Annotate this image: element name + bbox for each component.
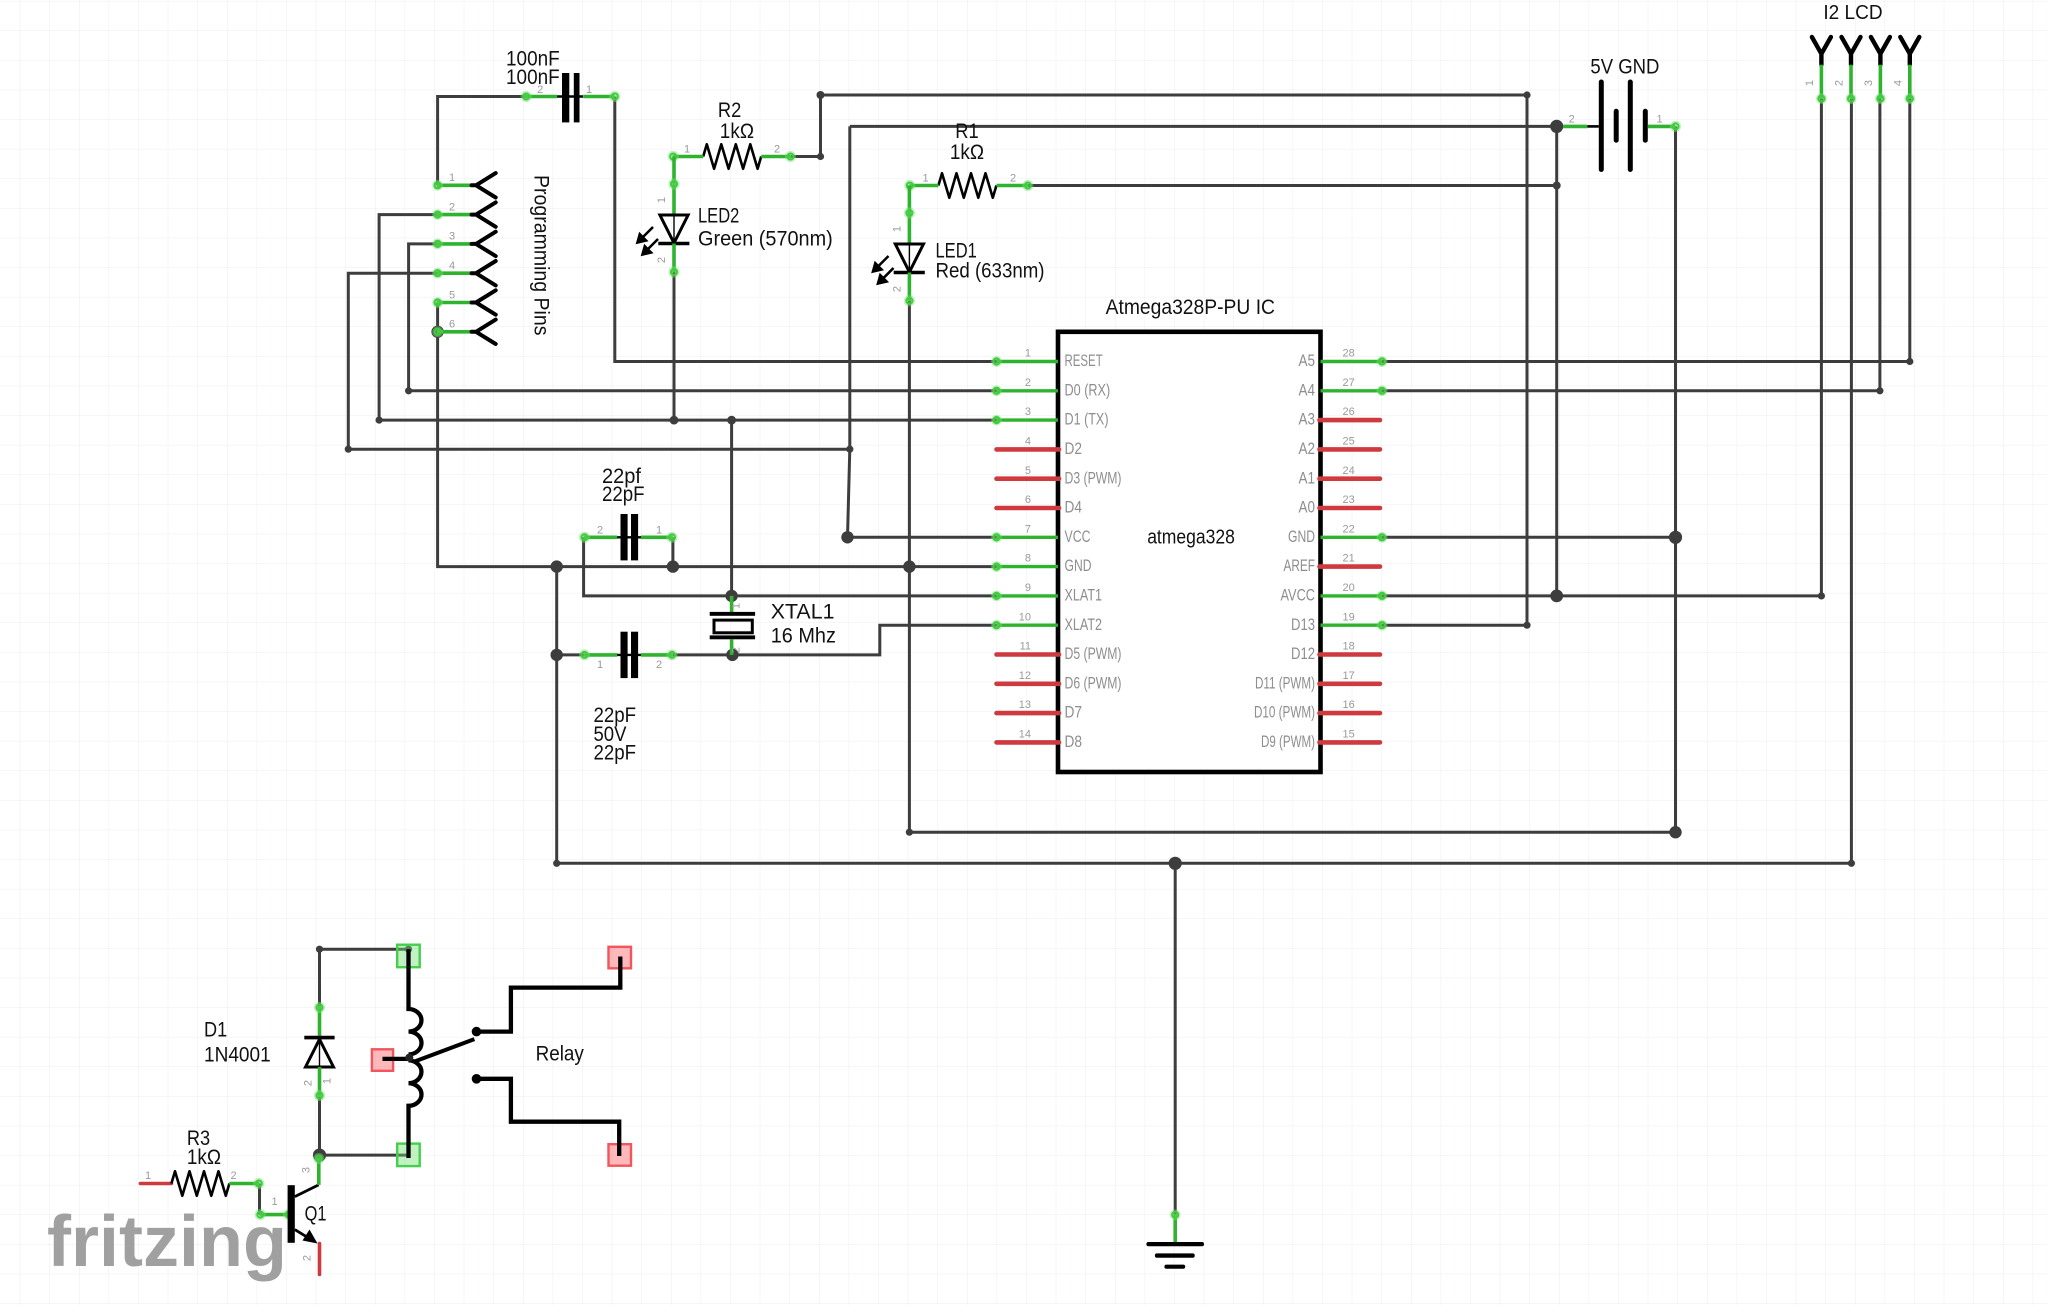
wire 22pF C2 pin1 down to GND rail [671,537,674,566]
IC U1 pin 11 D5 (PWM) lead [997,641,1122,664]
wire battery pin1 vertical [1674,126,1677,832]
capacitor C3 pin 2 lead [641,653,673,657]
svg-text:20: 20 [1343,582,1355,594]
junction lower rail at battery pin1 vertical [1669,826,1681,838]
junction XLAT1 row at XTAL1 pin1 [725,590,737,602]
wire 5V net: battery pin2 horizontal [850,125,1557,128]
LED LED2 pin 1 lead [672,157,676,216]
svg-text:5: 5 [1025,465,1031,477]
wire RESET net: 100nF pin1 down to IC pin1 RESET [615,97,997,362]
svg-text:D8: D8 [1065,732,1083,751]
svg-text:Green (570nm): Green (570nm) [698,226,833,250]
programming pin 3 [432,231,496,256]
svg-text:2: 2 [1010,173,1016,185]
svg-text:6: 6 [1025,494,1031,506]
svg-text:11: 11 [1020,641,1031,653]
relay common tap [383,1057,409,1061]
svg-text:XTAL1: XTAL1 [771,600,835,624]
svg-text:1: 1 [271,1196,277,1208]
LED LED1 body [894,244,925,273]
crystal XTAL1 pin 1 lead [730,596,734,613]
wire 5V net: battery pin2 vertical to VCC pin7 [848,126,997,537]
svg-text:1: 1 [597,659,603,671]
svg-text:D13: D13 [1291,615,1315,634]
svg-text:1: 1 [684,144,690,156]
IC U1 pin 18 D12 lead [1291,641,1380,664]
svg-text:1: 1 [145,1170,151,1182]
junction D13 row corner [1523,622,1530,629]
resistor R3 pin 1 stub [140,1182,171,1186]
IC U1 pin 3 D1 (TX) lead [991,406,1108,429]
svg-text:1kΩ: 1kΩ [187,1145,221,1169]
junction A4 row at I2C pin3 riser [1876,387,1883,394]
wire GND pin22 to battery pin1 vertical [1382,536,1676,539]
svg-text:A4: A4 [1299,380,1316,399]
relay upper contact to NO pad [476,957,621,1032]
I2C LCD pin 2 [1834,37,1861,104]
svg-text:2: 2 [303,1080,315,1086]
svg-text:6: 6 [449,319,455,331]
svg-text:1: 1 [731,603,743,609]
svg-text:22pF: 22pF [594,741,637,765]
relay lower contact to NC pad [476,1079,620,1156]
relay armature [414,1039,474,1062]
LED LED1 pin 1 lead [908,186,912,245]
IC U1 pin 21 AREF lead [1284,553,1381,576]
I2C LCD pin 3 [1863,37,1890,104]
svg-text:LED2: LED2 [698,204,739,228]
svg-text:1: 1 [892,226,904,232]
svg-text:2: 2 [656,659,662,671]
relay pad red NO contact [609,947,632,969]
IC U1 pin 22 GND lead [1288,523,1387,546]
svg-text:1: 1 [1804,80,1816,86]
wire collector junction to relay coil pin2 [320,1154,409,1157]
capacitor C2 pin 1 lead [641,535,673,539]
junction AVCC row at I2C pin1 riser [1818,592,1825,599]
junction XTAL1 pin2 row [726,649,738,661]
svg-text:fritzing: fritzing [47,1202,287,1282]
resistor R2 pin 1 lead [673,155,704,159]
junction GND rail at C2/C3 vertical [551,560,563,572]
IC U1 pin 13 D7 lead [997,699,1083,722]
svg-text:19: 19 [1343,611,1355,623]
capacitor C2 22pF plates [617,514,641,560]
svg-text:2: 2 [597,525,603,537]
IC U1 pin 1 RESET lead [991,348,1103,371]
svg-text:1: 1 [656,525,662,537]
IC U1 pin 19 D13 lead [1291,611,1387,634]
LED LED1 emission arrows [873,256,894,284]
wire R1 pin2 to battery pin2 vertical [1029,184,1557,187]
capacitor C2 pin 2 lead [584,535,618,539]
svg-text:2: 2 [731,647,743,653]
I2C LCD pin 1 [1804,37,1831,104]
svg-text:4: 4 [1025,436,1031,448]
IC U1 pin 24 A1 lead [1299,465,1381,488]
wire R2 pin2 up to top rail and D13 [791,95,1527,625]
svg-text:XLAT1: XLAT1 [1065,586,1103,605]
junction GND rail at LED1 branch [903,560,915,572]
capacitor C1 pin 2 lead [525,95,558,99]
junction lower rail at LED1 corner [906,829,913,836]
svg-text:Relay: Relay [536,1042,584,1066]
svg-text:AVCC: AVCC [1281,586,1316,605]
svg-text:Atmega328P-PU IC: Atmega328P-PU IC [1106,295,1275,319]
svg-text:21: 21 [1343,553,1355,565]
junction D1 row at LED2 cathode [670,416,679,425]
resistor R3 body [171,1171,229,1196]
svg-text:10: 10 [1019,611,1031,623]
resistor R1 pin 1 lead [909,184,938,188]
svg-text:2: 2 [656,257,668,263]
svg-text:1: 1 [656,197,668,203]
LED LED2 body [658,215,689,244]
wire 5V net: programming pin4 down and right [348,273,850,449]
svg-text:23: 23 [1343,494,1355,506]
svg-text:D1: D1 [204,1018,227,1042]
wire D1 row junction down to XTAL1 pin1 [730,420,733,596]
capacitor C1 100nF plates [557,73,583,122]
junction top rail right corner [1523,91,1530,98]
wire D1 net: programming pin2 to IC pin3 D1 [379,215,996,421]
svg-text:3: 3 [1863,80,1875,86]
junction battery pin2 wire [1550,120,1563,133]
IC U1 pin 25 A2 lead [1299,436,1381,459]
svg-text:22: 22 [1343,523,1355,535]
junction 5V row at battery vertical [846,446,853,453]
svg-text:D3 (PWM): D3 (PWM) [1065,468,1122,487]
wire relay coil pin to D1 anode [320,949,409,1006]
capacitor C3 22pF plates [617,632,641,678]
svg-text:A1: A1 [1299,468,1316,487]
diode D1 body [304,1038,334,1067]
svg-text:14: 14 [1019,729,1031,741]
svg-text:2: 2 [1834,80,1846,86]
IC U1 pin 20 AVCC lead [1281,582,1388,605]
programming pin 1 [432,172,496,197]
IC U1 pin 16 D10 (PWM) lead [1254,699,1380,722]
svg-text:D7: D7 [1065,703,1083,722]
resistor R2 pin 2 lead [761,155,791,159]
svg-text:100nF: 100nF [506,65,560,89]
wire D1 cathode down to collector junction [318,1097,321,1155]
svg-text:2: 2 [302,1255,314,1261]
svg-text:A5: A5 [1299,351,1316,370]
wire GND rail junction down to bottom rail and I2C LCD pin2 [557,99,1852,864]
svg-text:D10 (PWM): D10 (PWM) [1254,703,1315,722]
resistor R2 body [703,144,761,169]
junction battery vertical at R1 row [1553,182,1561,190]
svg-text:I2 LCD: I2 LCD [1823,2,1882,24]
svg-text:3: 3 [1025,406,1031,418]
svg-text:RESET: RESET [1065,351,1103,370]
IC U1 pin 8 GND lead [991,553,1091,576]
svg-text:D6 (PWM): D6 (PWM) [1065,673,1122,692]
svg-text:1: 1 [1657,113,1663,125]
svg-text:8: 8 [1025,553,1031,565]
IC U1 pin 12 D6 (PWM) lead [997,670,1122,693]
IC U1 pin 17 D11 (PWM) lead [1255,670,1380,693]
battery BT1 pin 1 lead [1648,125,1676,129]
junction A5 row at I2C pin4 riser [1906,358,1913,365]
relay pad green coil pin 1 [397,945,420,968]
resistor R3 pin 2 lead [229,1182,259,1186]
junction D1 anode corner [316,946,323,953]
svg-text:D12: D12 [1291,644,1315,663]
svg-text:2: 2 [1025,377,1031,389]
svg-text:D2: D2 [1065,439,1083,458]
wire 22pF C3 pin1 stub to GND vertical [557,653,584,656]
svg-text:9: 9 [1025,582,1031,594]
svg-text:1kΩ: 1kΩ [950,140,984,164]
capacitor C1 pin 1 lead [583,95,615,99]
svg-text:1: 1 [922,173,928,185]
programming pin 5 [432,289,496,314]
svg-text:2: 2 [774,144,780,156]
IC U1 pin 5 D3 (PWM) lead [997,465,1122,488]
svg-text:7: 7 [1025,523,1031,535]
junction D0 row at prog pin3 riser [405,387,412,394]
IC U1 pin 15 D9 (PWM) lead [1261,729,1380,752]
IC U1 pin 2 D0 (RX) lead [991,377,1110,400]
svg-text:24: 24 [1343,465,1355,477]
svg-text:1: 1 [449,172,455,184]
svg-text:1: 1 [322,1078,334,1084]
transistor Q1 emitter stub [318,1244,322,1275]
junction GND pin22 at battery pin1 vertical [1669,531,1682,544]
transistor Q1 collector lead [317,1157,321,1185]
IC U1 pin 27 A4 lead [1299,377,1388,400]
ground symbol [1146,1209,1204,1268]
svg-text:28: 28 [1343,348,1355,360]
svg-text:Programming Pins: Programming Pins [530,175,553,336]
wire 22pF C3 pin2 to XTAL1 pin2 to IC pin10 XLAT2 [673,625,997,655]
junction R2 pin2 corner [817,153,824,160]
svg-text:5V GND: 5V GND [1590,55,1659,79]
svg-text:1: 1 [1025,348,1031,360]
IC U1 pin 9 XLAT1 lead [991,582,1102,605]
junction bottom rail left corner [553,860,560,867]
svg-text:A2: A2 [1299,439,1316,458]
svg-text:D11 (PWM): D11 (PWM) [1255,673,1315,692]
svg-text:2: 2 [449,201,455,213]
svg-text:GND: GND [1288,527,1315,546]
resistor R1 pin 2 lead [997,184,1029,188]
svg-text:18: 18 [1343,641,1355,653]
svg-text:D0 (RX): D0 (RX) [1065,380,1111,399]
relay coil [409,949,422,1158]
svg-text:atmega328: atmega328 [1147,527,1235,549]
wire battery pin2 vertical down to AVCC row [1555,126,1558,596]
svg-text:13: 13 [1019,699,1031,711]
LED LED1 pin 2 lead [908,273,912,301]
wire A5 pin28 to I2C LCD pin4 [1380,99,1910,362]
svg-text:Red (633nm): Red (633nm) [936,259,1045,283]
svg-text:Q1: Q1 [305,1201,327,1225]
IC U1 pin 14 D8 lead [997,729,1083,752]
svg-text:D4: D4 [1065,498,1083,517]
junction relay coil top pad entry [405,946,412,953]
relay pad green coil pin 2 [397,1144,420,1167]
junction D1 cathode, collector, relay coil [313,1149,326,1162]
relay pad red NC contact [609,1144,632,1166]
svg-text:3: 3 [300,1167,312,1173]
svg-text:D9 (PWM): D9 (PWM) [1261,732,1315,751]
junction VCC row at battery vertical [841,531,853,543]
transistor Q1 base lead [260,1213,291,1217]
junction programming pin6 [431,326,443,338]
svg-text:25: 25 [1343,436,1355,448]
wire R3 pin2 to Q1 base [258,1184,261,1215]
svg-text:26: 26 [1343,406,1355,418]
junction 5V row at prog pin4 riser [345,446,352,453]
programming pin 4 [432,260,496,285]
junction C3 pin1 at GND vertical [551,649,563,661]
svg-text:2: 2 [537,84,543,96]
IC U1 pin 10 XLAT2 lead [991,611,1102,634]
junction GND rail at C2 pin1 [667,560,679,572]
svg-text:15: 15 [1343,729,1355,741]
junction bottom rail at ground symbol [1169,857,1182,870]
I2C LCD pin 4 [1892,37,1919,104]
resistor R1 body [938,173,996,198]
wire D0 net: programming pin3 to IC pin2 D0 [409,244,997,391]
svg-text:2: 2 [1569,113,1575,125]
IC U1 pin 4 D2 lead [997,436,1083,459]
wire AVCC pin20 to I2C LCD pin1 [1382,99,1821,596]
crystal XTAL1 pin 2 lead [730,639,734,655]
svg-text:4: 4 [449,260,455,272]
programming pin 6 [432,319,496,344]
capacitor C3 pin 1 lead [584,653,618,657]
wire ground symbol stem [1174,863,1177,1214]
junction AVCC row at battery vertical [1550,590,1563,603]
svg-text:4: 4 [1892,80,1904,86]
svg-text:A0: A0 [1299,498,1316,517]
svg-text:VCC: VCC [1065,527,1091,546]
junction top rail at R2 riser [817,91,825,99]
junction bottom rail at I2C pin2 riser [1848,860,1855,867]
svg-text:17: 17 [1343,670,1355,682]
IC U1 pin 6 D4 lead [997,494,1083,516]
svg-text:2: 2 [892,286,904,292]
svg-text:3: 3 [449,231,455,243]
IC U1 pin 7 VCC lead [991,523,1090,546]
wire 22pF C2 pin2 down to XLAT1 row to IC pin9 [584,537,997,596]
svg-text:AREF: AREF [1284,556,1316,575]
svg-text:12: 12 [1019,670,1031,682]
junction D1 row at prog pin2 riser [376,417,383,424]
battery BT1 pin 2 lead [1563,125,1587,129]
svg-text:27: 27 [1343,377,1355,389]
wire GND rail: programming pins 5-6 to IC pin8 GND [438,303,997,567]
svg-text:16 Mhz: 16 Mhz [771,624,836,648]
svg-text:1: 1 [586,84,592,96]
diode D1 pin 2 lead [318,1006,322,1036]
relay pad red common [372,1049,393,1071]
diode D1 pin 1 lead [318,1067,322,1097]
junction D1 row at XTAL branch [727,416,736,425]
wire LED2 cathode down to D1 row [673,272,676,420]
LED LED2 pin 2 lead [672,244,676,273]
svg-text:5: 5 [449,289,455,301]
wire LED1 cathode down to lower rail to GND vertical [909,301,1675,832]
svg-text:22pF: 22pF [602,482,645,506]
svg-text:XLAT2: XLAT2 [1065,615,1103,634]
svg-text:1kΩ: 1kΩ [720,119,754,143]
programming pin 2 [432,201,496,226]
IC U1 pin 26 A3 lead [1299,406,1381,429]
crystal XTAL1 body [710,612,755,639]
wire A4 pin27 to I2C LCD pin3 [1380,99,1880,391]
svg-text:1N4001: 1N4001 [204,1042,271,1066]
IC U1 Atmega328P-PU body [1058,332,1321,772]
svg-text:D1 (TX): D1 (TX) [1065,410,1109,429]
svg-text:A3: A3 [1299,410,1316,429]
svg-text:16: 16 [1343,699,1355,711]
svg-text:2: 2 [231,1170,237,1182]
LED LED2 emission arrows [638,227,659,255]
IC U1 pin 28 A5 lead [1299,348,1388,371]
svg-text:D5 (PWM): D5 (PWM) [1065,644,1122,663]
IC U1 pin 23 A0 lead [1299,494,1381,516]
battery BT1 5V plates [1599,80,1648,173]
wire RESET net: 100nF pin2 to programming pin 1 [438,97,525,186]
transistor Q1 body [288,1185,319,1244]
svg-text:GND: GND [1065,556,1092,575]
